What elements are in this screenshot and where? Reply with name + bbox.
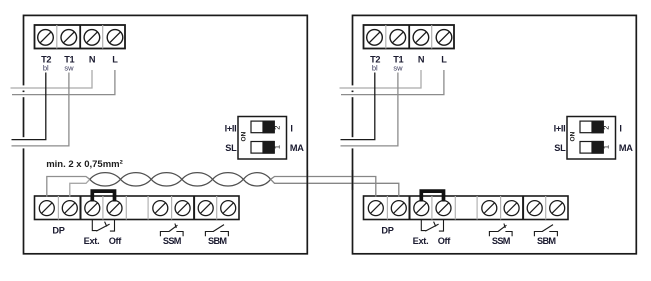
wire T2 (black) (12, 73, 46, 140)
wire N (11, 70, 93, 88)
right top block divider N|L (431, 25, 433, 49)
strip divider (431, 196, 433, 220)
screw terminal DP1 (39, 201, 54, 216)
svg-text:bl: bl (43, 64, 49, 73)
svg-text:ON: ON (241, 131, 248, 141)
svg-text:N: N (89, 55, 96, 65)
SBM contact symbol (534, 225, 557, 237)
wire halo (border gap) N/L crossing (21, 85, 25, 90)
left screw terminal T2 (38, 30, 54, 46)
border remnant dot (23, 91, 25, 93)
DIP switch body right (567, 117, 616, 160)
border over cable (left box right wall) (306, 170, 308, 190)
svg-text:SBM: SBM (537, 236, 556, 246)
left screw terminal T1 (61, 30, 77, 46)
wire T2 (black) (341, 73, 375, 140)
right screw terminal T2 (367, 30, 383, 46)
svg-text:1: 1 (602, 145, 611, 149)
svg-text:DP: DP (381, 226, 393, 236)
svg-text:min. 2 x 0,75mm²: min. 2 x 0,75mm² (46, 159, 123, 170)
svg-text:2: 2 (273, 126, 282, 130)
right top block divider T1|N (group wall) (408, 25, 410, 49)
DIP slider 2 (580, 121, 604, 134)
screw terminal SSM1 (153, 201, 168, 216)
SBM contact symbol (205, 225, 228, 237)
strip group wall (409, 196, 411, 220)
svg-text:sw: sw (393, 64, 403, 73)
svg-text:Ext.: Ext. (413, 236, 429, 246)
strip divider (454, 196, 456, 220)
right bottom terminal strip outline (364, 196, 569, 220)
strip divider (57, 196, 59, 220)
left top block divider N|L (102, 25, 104, 49)
strip group wall (193, 196, 195, 220)
screw terminal DP1 (368, 201, 383, 216)
screw terminal ExtOff2 (436, 201, 451, 216)
left bottom terminal strip outline (35, 196, 240, 220)
border remnant dot (352, 91, 354, 93)
right top terminal block outline (364, 25, 455, 49)
right screw terminal L (436, 30, 452, 46)
strip divider (171, 196, 173, 220)
wire from left DP terminal 1 to cable (47, 177, 90, 197)
svg-text:MA: MA (619, 143, 633, 153)
strip divider (386, 196, 388, 220)
svg-text:SL: SL (225, 143, 237, 153)
svg-text:MA: MA (290, 143, 304, 153)
right screw terminal T1 (390, 30, 406, 46)
wire L (12, 70, 115, 95)
screw terminal DP2 (62, 201, 77, 216)
svg-text:SBM: SBM (208, 236, 227, 246)
screw terminal SSM1 (482, 201, 497, 216)
svg-text:DP: DP (52, 226, 64, 236)
screw terminal SSM2 (175, 201, 190, 216)
twisted pair cable strand B (90, 173, 271, 186)
wire L (341, 70, 444, 95)
svg-text:I+II: I+II (554, 123, 566, 133)
strip divider (125, 196, 127, 220)
wire from cable to right DP terminal 2 (271, 179, 399, 196)
svg-text:Off: Off (109, 236, 123, 246)
wire halo (border gap) T2/T1 crossing (350, 137, 354, 148)
screw terminal SBM1 (198, 201, 213, 216)
strip divider (500, 196, 502, 220)
svg-text:N: N (418, 55, 425, 65)
svg-text:SSM: SSM (163, 236, 182, 246)
svg-text:Ext.: Ext. (84, 236, 100, 246)
strip divider (102, 196, 104, 220)
screw terminal ExtOff1 (85, 201, 100, 216)
left screw terminal N (84, 30, 100, 46)
svg-text:sw: sw (64, 64, 74, 73)
SSM contact symbol (489, 224, 512, 237)
svg-text:I: I (290, 123, 292, 133)
strip divider (147, 196, 149, 220)
strip group wall (522, 196, 524, 220)
svg-text:SL: SL (554, 143, 566, 153)
svg-text:bl: bl (372, 64, 378, 73)
svg-text:I: I (619, 123, 621, 133)
svg-text:ON: ON (570, 131, 577, 141)
screw terminal SSM2 (504, 201, 519, 216)
SSM contact symbol (160, 224, 183, 237)
left top block divider T1|N (group wall) (79, 25, 81, 49)
strip divider (216, 196, 218, 220)
strip divider (476, 196, 478, 220)
right screw terminal N (413, 30, 429, 46)
wire T1 (gray) (341, 73, 398, 146)
left screw terminal L (107, 30, 123, 46)
wire halo (border gap) N/L crossing (350, 85, 354, 90)
Ext.Off contact symbol (92, 220, 114, 231)
right module enclosure box (353, 15, 637, 253)
screw terminal DP2 (391, 201, 406, 216)
wire N (340, 70, 422, 88)
wire from left DP terminal 2 to cable (70, 179, 90, 196)
strip divider (545, 196, 547, 220)
wire from cable to right DP terminal 1 (271, 177, 376, 197)
Ext.Off jumper bridge (421, 191, 443, 201)
svg-text:L: L (441, 55, 447, 65)
screw terminal SBM2 (550, 201, 565, 216)
screw terminal ExtOff2 (107, 201, 122, 216)
svg-text:I+II: I+II (225, 123, 237, 133)
DIP switch body left (238, 117, 287, 160)
svg-text:1: 1 (273, 145, 282, 149)
DIP slider 1 (251, 141, 275, 154)
Ext.Off contact symbol (421, 220, 443, 231)
left top block divider T2|T1 (56, 25, 58, 49)
Ext.Off jumper bridge (92, 191, 114, 201)
twisted pair cable strand A (90, 173, 271, 186)
left top terminal block outline (35, 25, 126, 49)
svg-text:SSM: SSM (492, 236, 511, 246)
DIP slider 2 (251, 121, 275, 134)
screw terminal ExtOff1 (414, 201, 429, 216)
wire halo (border gap) T2/T1 crossing (21, 137, 25, 148)
left module enclosure box (24, 15, 308, 253)
svg-text:2: 2 (602, 126, 611, 130)
wire T1 (gray) (12, 73, 69, 146)
border over cable (right box left wall) (352, 170, 354, 190)
svg-text:L: L (112, 55, 118, 65)
screw terminal SBM1 (527, 201, 542, 216)
strip group wall (80, 196, 82, 220)
right top block divider T2|T1 (385, 25, 387, 49)
svg-text:Off: Off (438, 236, 452, 246)
DIP slider 1 (580, 141, 604, 154)
screw terminal SBM2 (221, 201, 236, 216)
